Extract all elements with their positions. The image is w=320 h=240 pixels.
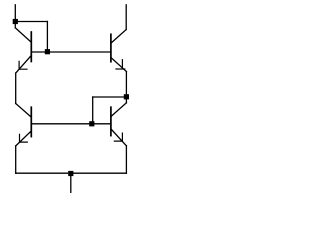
wire: node A horizontal to corner xyxy=(15,21,47,23)
transistor Q2 collector diagonal xyxy=(111,30,126,44)
transistor Q1 collector diagonal xyxy=(15,28,31,43)
transistor Q3 base bar xyxy=(30,107,32,136)
wire: down to node C rail xyxy=(92,97,94,124)
transistor Q2 emitter arrow xyxy=(116,60,125,69)
wire: top-left collector stub xyxy=(14,5,16,28)
transistor Q4 collector diagonal xyxy=(111,103,127,117)
wire: Q1 emitter to Q3 collector xyxy=(15,73,17,103)
transistor Q1 base bar xyxy=(30,32,32,62)
wire: node E horizontal left xyxy=(93,96,127,98)
node B junction dot xyxy=(45,49,50,54)
transistor Q1 emitter arrow xyxy=(19,61,27,69)
node E junction dot xyxy=(124,94,129,99)
transistor Q3 collector diagonal xyxy=(16,104,32,118)
wire: top-right collector stub xyxy=(125,5,127,30)
transistor Q4 base bar xyxy=(110,107,112,135)
transistor Q2 base bar xyxy=(110,34,112,61)
node A junction dot xyxy=(13,19,18,24)
wire: base rail Q3-Q4 xyxy=(31,123,111,125)
node C junction dot xyxy=(89,121,94,126)
wire: Q2 emitter down to node E xyxy=(125,72,127,97)
wire: bottom rail xyxy=(16,172,127,174)
transistor Q4 emitter diagonal xyxy=(111,129,126,146)
transistor Q3 emitter arrow xyxy=(20,134,28,142)
wire: bottom output stub xyxy=(70,174,72,193)
wire: common base rail Q1-Q2 xyxy=(31,51,111,53)
transistor Q3 emitter diagonal xyxy=(16,131,32,146)
wire: Q4 collector vertical to node E xyxy=(125,97,127,103)
wire: corner down to node B xyxy=(46,22,48,53)
transistor Q4 emitter arrow xyxy=(114,133,122,141)
node D junction dot xyxy=(68,171,73,176)
wire: Q3 emitter down to bottom rail xyxy=(15,146,17,173)
wire: Q4 emitter down to bottom rail xyxy=(125,146,127,173)
transistor Q1 emitter diagonal xyxy=(16,55,32,73)
transistor Q2 emitter diagonal xyxy=(111,58,126,72)
